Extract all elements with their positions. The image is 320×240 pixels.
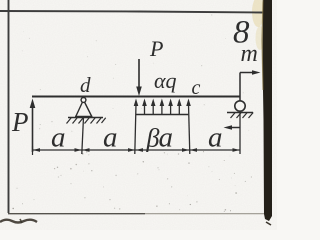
svg-text:a: a <box>159 122 174 154</box>
svg-text:c: c <box>192 77 201 99</box>
svg-text:a: a <box>103 122 118 154</box>
svg-text:β: β <box>146 124 160 153</box>
svg-text:a: a <box>208 122 223 154</box>
svg-text:d: d <box>80 73 91 97</box>
svg-text:8: 8 <box>233 15 250 51</box>
svg-text:a: a <box>51 122 66 154</box>
svg-text:P: P <box>149 36 163 61</box>
svg-text:P: P <box>11 107 29 137</box>
svg-text:αq: αq <box>154 68 177 93</box>
